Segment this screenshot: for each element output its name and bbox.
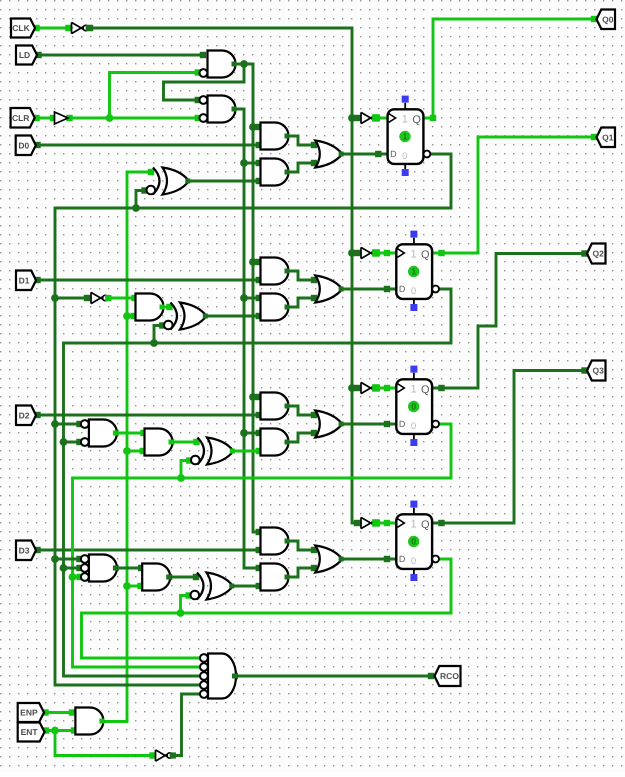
svg-text:ENP: ENP bbox=[20, 708, 38, 718]
node junction V2 y397 bbox=[249, 393, 257, 401]
svg-text:D2: D2 bbox=[19, 410, 30, 420]
and gate stage3 A bbox=[261, 393, 290, 420]
wire clock tap FF3 bbox=[352, 385, 361, 391]
svg-text:Q1: Q1 bbox=[602, 132, 614, 142]
wire CLR to buffer bbox=[33, 115, 56, 121]
wire AND4b out to XNOR4 bbox=[166, 574, 199, 580]
node junction enable bus y586 bbox=[123, 582, 131, 590]
wire gate U4 output to V1 bbox=[236, 109, 263, 571]
node junction V2 y127 bbox=[249, 123, 257, 131]
wire V1 tap stage2 bbox=[244, 295, 262, 301]
svg-text:LD: LD bbox=[19, 50, 30, 60]
or gate stage4 bbox=[315, 546, 343, 573]
wire stage4 OR out to FF D bbox=[342, 556, 396, 562]
wire stage4 XNOR out bbox=[234, 583, 263, 589]
flip-flop FF1 (bit0) bbox=[388, 96, 431, 176]
wire AND3b out to XNOR3 bbox=[168, 439, 200, 445]
wire Q1 net bbox=[432, 134, 597, 256]
svg-text:1: 1 bbox=[402, 113, 408, 125]
wire /Q0 tap to NOT2 bbox=[55, 295, 90, 301]
wire FF1 /Q net bbox=[55, 154, 451, 685]
node junction V1 y298 bbox=[240, 294, 248, 302]
node junction clock bus y253 bbox=[348, 249, 356, 257]
wire Q3 net bbox=[432, 367, 588, 526]
wire FF3 /Q to XNOR3 bbox=[181, 457, 193, 478]
wire FF2 /Q net bbox=[64, 289, 452, 676]
node junction /Q3 row613 bbox=[177, 609, 185, 617]
wire enable tap stage4 bbox=[127, 583, 144, 589]
node junction V2 y262 bbox=[249, 258, 257, 266]
wire NAND4 out to AND4b bbox=[112, 565, 144, 571]
svg-text:Q: Q bbox=[421, 249, 430, 261]
wire stage1 AND-B out jog bbox=[288, 160, 317, 172]
node junction /Q1 y442 bbox=[60, 438, 68, 446]
node junction /Q0 y559 bbox=[51, 555, 59, 563]
or gate stage1 bbox=[315, 141, 343, 168]
wire D3 line bbox=[34, 547, 262, 553]
svg-text:D: D bbox=[390, 149, 397, 159]
wire clock tap FF2 bbox=[352, 250, 361, 256]
node junction ENT branch bbox=[51, 727, 59, 735]
node junction clock bus y388 bbox=[348, 384, 356, 392]
svg-text:CLK: CLK bbox=[12, 23, 30, 33]
svg-text:0: 0 bbox=[411, 556, 416, 567]
wire /Q0 tap to NAND4 bbox=[55, 556, 83, 562]
output pin RCO bbox=[435, 666, 461, 686]
node junction clock bus y118 bbox=[348, 114, 356, 122]
wire stage2 AND-B out jog bbox=[288, 295, 317, 307]
input pin ENP bbox=[18, 703, 44, 722]
wire CLK to inverter bbox=[33, 25, 71, 31]
wire FF1 clock stub bbox=[374, 115, 388, 121]
svg-text:Q0: Q0 bbox=[602, 14, 614, 24]
wire FF4 /Q net bbox=[82, 559, 452, 658]
and gate stage4 B bbox=[261, 564, 290, 591]
input pin CLK bbox=[11, 19, 35, 38]
svg-text:Q3: Q3 bbox=[593, 366, 605, 376]
flip-flop FF3 (bit2) bbox=[396, 366, 439, 446]
wire stage3 OR out to FF D bbox=[342, 421, 396, 427]
wire V2 tap stage1 bbox=[253, 124, 262, 130]
inverter NOT-EN (ENT) bbox=[156, 750, 176, 761]
clock inverter stage4 bbox=[361, 517, 380, 528]
buffer U2 (CLR) bbox=[55, 112, 69, 124]
wire LD line bbox=[35, 52, 206, 58]
inverter U1 (CLK) bbox=[72, 22, 92, 33]
wire stage1 OR out to FF D bbox=[342, 151, 387, 157]
svg-text:1: 1 bbox=[410, 248, 416, 260]
clock inverter stage1 bbox=[361, 112, 380, 123]
node junction enable bus y316 bbox=[123, 312, 131, 320]
and gate stage4 A bbox=[261, 528, 290, 555]
inverter NOT2 (stage2) bbox=[91, 292, 111, 303]
wire stage1 XNOR out bbox=[189, 178, 262, 184]
wire ENT line bbox=[43, 727, 77, 733]
wire stage4 AND-B out jog bbox=[288, 565, 317, 577]
wire ENP line bbox=[42, 709, 75, 715]
wire NAND3 out to AND3b bbox=[112, 430, 146, 436]
svg-text:D1: D1 bbox=[19, 275, 30, 285]
wire FF4 clock stub bbox=[374, 520, 397, 526]
wire U3 feedback loop bbox=[164, 64, 245, 103]
svg-text:Q: Q bbox=[412, 114, 421, 126]
wire V2 tap stage2 bbox=[253, 259, 262, 265]
svg-text:0: 0 bbox=[411, 421, 416, 432]
and gate stage2 A bbox=[261, 258, 290, 285]
wire stage3 AND-B out jog bbox=[288, 430, 317, 442]
wire D0 line bbox=[34, 142, 262, 148]
svg-text:1: 1 bbox=[410, 518, 416, 530]
nand gate NAND3 (stage3, negated inputs) bbox=[81, 420, 118, 447]
svg-text:ENT: ENT bbox=[21, 727, 39, 737]
wire /Q2 tap to NAND4 bbox=[73, 574, 83, 580]
wire /Q1 tap to NAND4 bbox=[64, 565, 83, 571]
node junction /Q1 row343 bbox=[150, 339, 158, 347]
svg-text:RCO: RCO bbox=[440, 671, 459, 681]
or gate stage3 bbox=[315, 411, 343, 438]
xnor gate stage2 bbox=[164, 303, 208, 330]
node junction /Q2 row478 bbox=[177, 474, 185, 482]
input pin D1 bbox=[16, 271, 36, 291]
clock inverter stage3 bbox=[361, 382, 380, 393]
and gate U3 (LD, negated input) bbox=[200, 51, 237, 78]
input pin CLR bbox=[11, 108, 35, 128]
and gate stage3 B bbox=[261, 429, 290, 456]
wire FF2 clock stub bbox=[374, 250, 397, 256]
xnor gate stage1 bbox=[147, 168, 191, 195]
node junction /Q0 y424 bbox=[51, 420, 59, 428]
svg-text:0: 0 bbox=[402, 151, 407, 162]
wire FF3 /Q net bbox=[73, 424, 452, 667]
wire NOT2 out to AND2 bbox=[108, 295, 138, 301]
output pin Q0 bbox=[597, 10, 616, 30]
svg-text:0: 0 bbox=[411, 402, 416, 412]
wire D2 line bbox=[34, 412, 262, 418]
wire stage2 AND-A out jog bbox=[288, 271, 317, 283]
svg-text:1: 1 bbox=[411, 267, 416, 277]
svg-text:D: D bbox=[399, 284, 406, 294]
output pin Q3 bbox=[587, 361, 606, 381]
output pin Q1 bbox=[597, 128, 616, 148]
svg-text:D: D bbox=[399, 419, 406, 429]
wire D1 line bbox=[34, 277, 262, 283]
svg-text:Q: Q bbox=[421, 384, 430, 396]
svg-text:1: 1 bbox=[410, 383, 416, 395]
wire enable tap stage2 bbox=[127, 313, 137, 319]
flip-flop FF2 (bit1) bbox=[396, 231, 439, 311]
node junction /Q1 y568 bbox=[60, 564, 68, 572]
node junction CLR branch bbox=[106, 114, 114, 122]
and gate AND-EN (ENP,ENT) bbox=[75, 708, 104, 735]
rco gate (5 negated inputs) bbox=[200, 654, 237, 699]
wire NOT-EN out to RCO gate bbox=[174, 694, 200, 756]
wire enable tap stage3 bbox=[127, 448, 146, 454]
wire /Q0 tap to NAND3 bbox=[55, 421, 83, 427]
wire stage2 OR out to FF D bbox=[342, 286, 396, 292]
wire AND2 out to XNOR2 bbox=[163, 304, 172, 310]
and gate stage1 A bbox=[261, 123, 290, 150]
node junction /Q0 y298 bbox=[51, 294, 59, 302]
wire /Q1 tap to NAND3 bbox=[64, 439, 83, 445]
node junction V1 y163 bbox=[240, 159, 248, 167]
wire ENT branch to NOT-EN bbox=[55, 731, 156, 759]
input pin LD bbox=[16, 46, 37, 65]
wire FF3 clock stub bbox=[374, 385, 397, 391]
input pin ENT bbox=[18, 723, 45, 742]
and gate stage1 B bbox=[261, 159, 290, 186]
wire V1 tap stage1 bbox=[244, 160, 262, 166]
wire Q0 net bbox=[423, 16, 597, 121]
wire clock tap FF1 bbox=[352, 115, 361, 121]
and gate stage2 B bbox=[261, 294, 290, 321]
wire FF1 /Q to XNOR1 bbox=[136, 187, 148, 208]
wire CLK-bar bus bbox=[87, 25, 361, 526]
xnor gate stage4 bbox=[191, 573, 235, 600]
and gate AND4b (stage4) bbox=[142, 564, 171, 591]
and gate AND2 (stage2) bbox=[136, 294, 165, 321]
wire stage3 AND-A out jog bbox=[288, 406, 317, 418]
input pin D3 bbox=[16, 541, 36, 561]
wire V2 tap stage3 bbox=[253, 394, 262, 400]
flip-flop FF4 (bit3) bbox=[396, 501, 439, 581]
node junction V1 y433 bbox=[240, 429, 248, 437]
input pin D0 bbox=[16, 136, 36, 156]
wire CLR line bbox=[66, 115, 201, 121]
wire stage3 XNOR out bbox=[234, 448, 263, 454]
svg-text:CLR: CLR bbox=[12, 113, 29, 123]
svg-text:0: 0 bbox=[411, 286, 416, 297]
svg-text:1: 1 bbox=[402, 132, 407, 142]
clock inverter stage2 bbox=[361, 247, 380, 258]
wire FF4 /Q to XNOR4 bbox=[181, 592, 192, 613]
node junction /Q0 row208 bbox=[132, 204, 140, 212]
wire Q2 net bbox=[432, 250, 588, 391]
wire stage4 AND-A out jog bbox=[288, 541, 317, 553]
node junction enable bus y451 bbox=[123, 447, 131, 455]
svg-text:0: 0 bbox=[411, 537, 416, 547]
node junction U3 out bbox=[240, 60, 248, 68]
wire V1 tap stage3 bbox=[244, 430, 262, 436]
or gate stage2 bbox=[315, 276, 343, 303]
svg-text:D0: D0 bbox=[18, 140, 29, 150]
xnor gate stage3 bbox=[191, 438, 235, 465]
svg-text:D: D bbox=[399, 554, 406, 564]
svg-text:Q2: Q2 bbox=[593, 249, 605, 259]
wire enable bus bbox=[103, 169, 154, 722]
svg-text:Q: Q bbox=[421, 519, 430, 531]
wire FF2 /Q to XNOR2 bbox=[154, 322, 166, 343]
wire gate U3 output to V2 bbox=[236, 64, 263, 535]
input pin D2 bbox=[16, 406, 36, 426]
node junction /Q2 y577 bbox=[69, 573, 77, 581]
output pin Q2 bbox=[587, 244, 606, 264]
wire CLR branch up bbox=[110, 69, 202, 118]
and gate AND3b (stage3) bbox=[145, 429, 174, 456]
svg-text:D3: D3 bbox=[19, 545, 30, 555]
wire RCO out bbox=[232, 673, 435, 679]
and gate U4 (both inputs negated) bbox=[200, 96, 237, 123]
nand gate NAND4 (stage4, negated inputs) bbox=[81, 555, 118, 582]
wire stage1 AND-A out jog bbox=[288, 136, 317, 148]
wire stage2 XNOR out bbox=[207, 313, 263, 319]
